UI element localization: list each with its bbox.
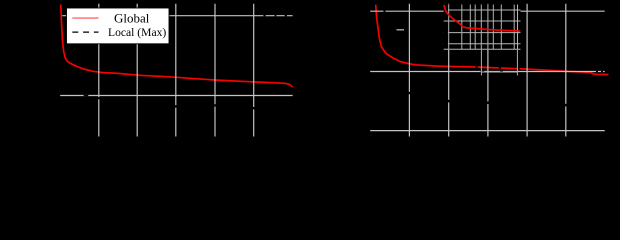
horizontal gridlines left plot bbox=[60, 16, 292, 96]
inset background patch bbox=[444, 4, 521, 50]
inset vertical gridlines bbox=[449, 5, 518, 50]
black dashed inset-curve overlay (erases left ends of inset gridlines) bbox=[444, 7, 448, 47]
inset horizontal gridlines bbox=[444, 10, 521, 49]
isolated gray dash (dashed line fragment) bbox=[397, 29, 405, 31]
zoom indicator rect bottom edge bbox=[481, 71, 517, 73]
black dash gaps on gridlines (dashed curve overlay) bbox=[84, 11, 603, 95]
vertical gridlines left plot bbox=[99, 4, 254, 137]
horizontal gridlines right plot bbox=[370, 11, 605, 130]
inset red curve bbox=[444, 5, 520, 31]
red curve left plot bbox=[61, 5, 293, 88]
svg-text:Local (Max): Local (Max) bbox=[108, 26, 166, 39]
black dash gaps on top gridline (dashed curve overlay) bbox=[263, 15, 287, 17]
black dash gaps on right red curve (dashed curve overlay) bbox=[476, 67, 520, 69]
vertical gridlines right plot bbox=[409, 4, 565, 137]
red curve right plot bbox=[376, 5, 609, 75]
legend box bbox=[67, 8, 170, 44]
zoom connector verticals bbox=[481, 49, 517, 76]
black notches on vertical gridlines (dashed curve crossings) bbox=[99, 92, 566, 110]
svg-text:Global: Global bbox=[114, 10, 150, 25]
